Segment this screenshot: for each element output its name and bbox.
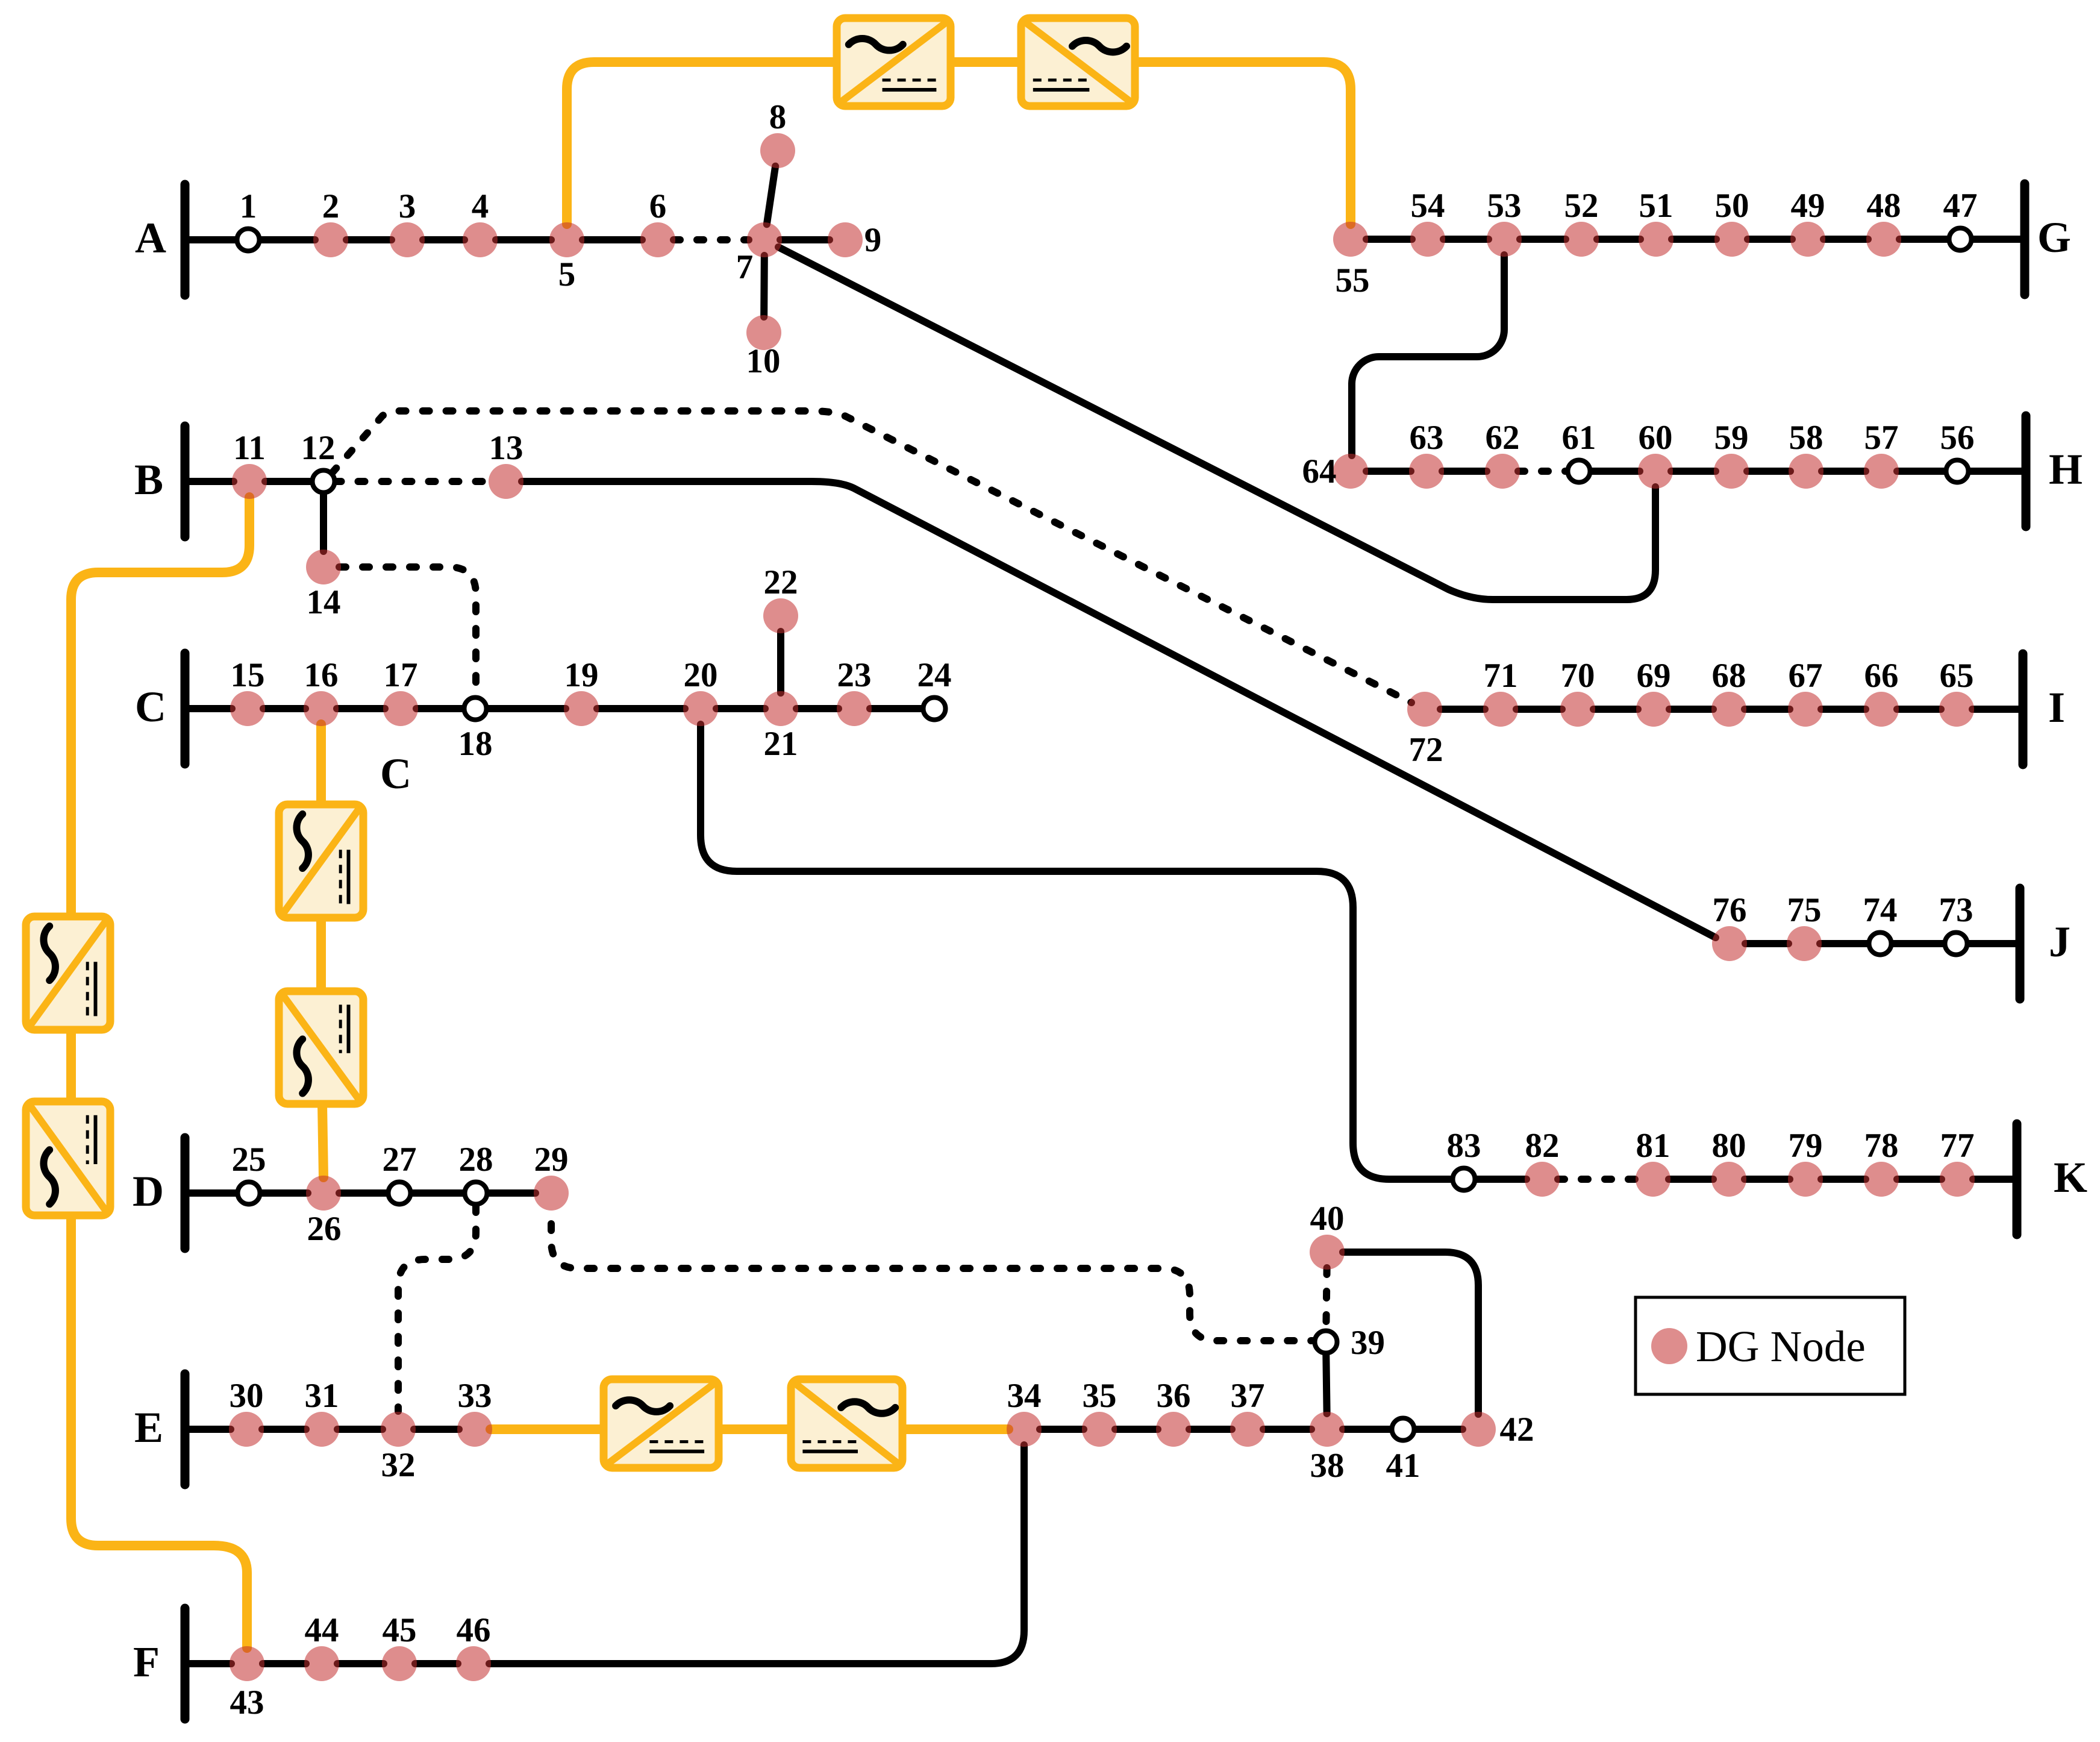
bus bar B: [181, 426, 190, 537]
node 83 (open): [1453, 1168, 1475, 1191]
DG node 10: [746, 315, 781, 350]
DG node 79: [1788, 1162, 1823, 1197]
svg-text:47: 47: [1943, 187, 1978, 225]
tie switch 12-13 (dashed): [335, 478, 491, 485]
svg-text:49: 49: [1791, 187, 1825, 225]
svg-text:63: 63: [1410, 419, 1444, 457]
wire 74-73: [1892, 940, 1945, 947]
DC link converter E1-E2 wire: [719, 1424, 791, 1434]
svg-text:64: 64: [1302, 453, 1337, 490]
svg-text:23: 23: [837, 656, 872, 694]
wire 57-56: [1897, 468, 1946, 475]
svg-text:13: 13: [489, 429, 523, 467]
node 73 (open): [1945, 933, 1967, 955]
converter E2 (DC/AC): [791, 1379, 902, 1468]
wire 83-82: [1475, 1176, 1527, 1183]
wire 41-42: [1414, 1426, 1463, 1433]
DG node 59: [1714, 454, 1749, 489]
wire 20-21: [716, 705, 765, 712]
svg-text:27: 27: [383, 1141, 417, 1179]
link node 13 to node 76 (diagonal): [522, 481, 1716, 938]
wire 68-67: [1745, 706, 1790, 713]
svg-text:21: 21: [764, 725, 798, 763]
svg-text:J: J: [2049, 918, 2070, 966]
svg-text:62: 62: [1486, 419, 1520, 457]
wire 61-60: [1590, 468, 1640, 475]
tie switch 82-81 (dashed): [1558, 1176, 1637, 1183]
wire 7-10: [760, 255, 768, 317]
wire 49-48: [1823, 236, 1868, 243]
wire 65 to bus I: [1972, 706, 2023, 713]
DG node 8: [760, 133, 795, 168]
node 12 (open): [313, 471, 335, 493]
wire 72-71: [1440, 706, 1485, 713]
DG node 11: [232, 464, 267, 499]
wire 7-9: [780, 236, 830, 243]
svg-text:41: 41: [1386, 1447, 1420, 1485]
DG node 37: [1230, 1412, 1265, 1447]
wire 53-52: [1520, 236, 1566, 243]
bus bar H: [2022, 416, 2031, 527]
wire bus F to node 43: [185, 1660, 231, 1667]
wire 54-53: [1443, 236, 1489, 243]
converter T2 (DC/AC): [1021, 18, 1135, 106]
tie switch 14 to 18 (dashed): [339, 567, 476, 695]
DG node 46: [456, 1646, 491, 1681]
DG node 68: [1711, 692, 1746, 727]
converter L1 (AC/DC): [26, 916, 110, 1030]
wire bus D to node 25: [185, 1189, 238, 1197]
link node 40 to node 42: [1343, 1252, 1478, 1414]
svg-text:20: 20: [684, 656, 718, 694]
DG node 77: [1940, 1162, 1975, 1197]
wire 25-26: [260, 1189, 308, 1197]
svg-text:A: A: [135, 214, 166, 262]
DG node 75: [1787, 926, 1822, 961]
svg-text:58: 58: [1789, 419, 1823, 457]
converter L2 (DC/AC): [26, 1101, 110, 1215]
DG node 36: [1156, 1412, 1191, 1447]
wire 18-19: [487, 705, 566, 712]
wire 55-54: [1366, 236, 1412, 243]
DG node 64: [1333, 454, 1368, 489]
wire 11-12: [265, 478, 313, 485]
DG node 72: [1407, 692, 1442, 727]
svg-text:52: 52: [1564, 187, 1599, 225]
DG node 6: [640, 222, 675, 257]
DG node 81: [1636, 1162, 1670, 1197]
wire 66-65: [1897, 706, 1941, 713]
wire bus B to node 11: [185, 478, 234, 485]
svg-text:F: F: [133, 1638, 160, 1686]
svg-text:DG Node: DG Node: [1696, 1322, 1866, 1371]
svg-text:K: K: [2054, 1153, 2087, 1202]
DG node 15: [230, 691, 265, 726]
DG node 65: [1939, 692, 1974, 727]
converter M2 (DC/AC): [279, 991, 363, 1104]
svg-text:28: 28: [459, 1141, 493, 1179]
wire 79-78: [1821, 1176, 1866, 1183]
DG node 20: [683, 691, 718, 726]
wire 73 to bus J: [1967, 940, 2020, 947]
wire 43-44: [263, 1660, 306, 1667]
svg-text:79: 79: [1789, 1127, 1823, 1165]
DG node 45: [382, 1646, 417, 1681]
wire 75-74: [1820, 940, 1869, 947]
svg-text:44: 44: [305, 1611, 339, 1649]
DG node 13: [489, 464, 523, 499]
DG node 5: [549, 222, 584, 257]
svg-text:76: 76: [1713, 891, 1747, 929]
wire bus E to node 30: [185, 1426, 231, 1433]
bus bar J: [2016, 888, 2025, 999]
wire 5-6: [583, 236, 642, 243]
wire 1-2: [260, 236, 316, 243]
svg-text:26: 26: [307, 1210, 342, 1248]
wire 16-17: [337, 705, 385, 712]
svg-text:43: 43: [230, 1684, 264, 1722]
svg-text:71: 71: [1484, 657, 1518, 695]
DC link converter E2 to node 34: [902, 1424, 1008, 1434]
wire 76-75: [1745, 940, 1789, 947]
link node 7 to node 60 (diagonal): [778, 247, 1655, 600]
DG node 26: [306, 1176, 341, 1211]
legend box: [1636, 1297, 1905, 1394]
DG node 23: [837, 691, 872, 726]
DC link node 33 to converter E1: [490, 1424, 607, 1434]
DG node 60: [1638, 454, 1673, 489]
wire 80-79: [1745, 1176, 1790, 1183]
svg-text:40: 40: [1310, 1200, 1345, 1238]
DC link node 16 riser: [316, 724, 326, 804]
DC link converter M2 to node 26: [322, 1104, 323, 1177]
svg-text:12: 12: [301, 429, 336, 467]
node 25 (open): [238, 1182, 260, 1205]
wire 50-49: [1748, 236, 1792, 243]
svg-text:1: 1: [240, 187, 257, 225]
svg-text:39: 39: [1351, 1324, 1385, 1362]
DG node 40: [1310, 1235, 1345, 1270]
DG node 80: [1711, 1162, 1746, 1197]
svg-text:36: 36: [1157, 1377, 1191, 1415]
wire 56 to bus H: [1969, 468, 2027, 475]
tie switch 29 to 39 (dashed): [551, 1224, 1313, 1341]
bus bar G: [2020, 184, 2030, 295]
wire 23-24: [870, 705, 923, 712]
converter T1 (AC/DC): [837, 18, 951, 106]
svg-text:14: 14: [307, 583, 341, 621]
link node 53 to node 64: [1352, 255, 1504, 456]
svg-text:53: 53: [1487, 187, 1522, 225]
DG node 52: [1564, 222, 1599, 257]
svg-text:54: 54: [1411, 187, 1445, 225]
DG node 42: [1461, 1412, 1496, 1447]
DG node 69: [1636, 692, 1671, 727]
svg-text:2: 2: [322, 187, 340, 225]
svg-text:7: 7: [736, 248, 754, 286]
svg-text:29: 29: [534, 1141, 569, 1179]
DG node 66: [1864, 692, 1899, 727]
wire 21-23: [796, 705, 839, 712]
legend DG node symbol: [1651, 1328, 1687, 1364]
DG node 30: [229, 1412, 264, 1447]
converter M1 (AC/DC): [279, 804, 363, 918]
svg-text:34: 34: [1007, 1377, 1042, 1415]
DG node 32: [381, 1412, 416, 1447]
svg-text:33: 33: [458, 1377, 492, 1415]
wire 35-36: [1115, 1426, 1158, 1433]
bus bar E: [181, 1374, 190, 1485]
DG node 55: [1333, 222, 1368, 257]
tie switch 62-61 (dashed): [1518, 468, 1568, 475]
DG node 53: [1487, 222, 1522, 257]
svg-text:57: 57: [1864, 419, 1899, 457]
svg-text:C: C: [135, 683, 166, 731]
wire 7-8: [767, 166, 775, 225]
svg-text:42: 42: [1500, 1411, 1534, 1449]
wire 44-45: [337, 1660, 384, 1667]
svg-text:5: 5: [558, 255, 576, 293]
svg-text:17: 17: [384, 656, 418, 694]
DG node 17: [383, 691, 418, 726]
wire 77 to bus K: [1973, 1176, 2017, 1183]
svg-text:24: 24: [917, 656, 952, 694]
DC link converter M1-M2 wire: [316, 918, 326, 991]
DG node 21: [763, 691, 798, 726]
DG node 9: [828, 222, 863, 257]
wire 48-47: [1899, 236, 1949, 243]
wire 58-57: [1822, 468, 1866, 475]
DC link node 5 riser: [567, 62, 837, 224]
svg-text:60: 60: [1639, 419, 1673, 457]
DC link left converter L1-L2 wire: [66, 1030, 76, 1101]
svg-text:45: 45: [383, 1611, 417, 1649]
wire 34-35: [1040, 1426, 1084, 1433]
svg-text:9: 9: [864, 221, 882, 259]
svg-text:82: 82: [1525, 1127, 1560, 1165]
svg-text:37: 37: [1231, 1377, 1265, 1415]
wire 4-5: [496, 236, 551, 243]
svg-text:D: D: [133, 1167, 164, 1215]
svg-text:69: 69: [1637, 657, 1671, 695]
svg-text:59: 59: [1714, 419, 1749, 457]
DG node 44: [304, 1646, 339, 1681]
svg-text:51: 51: [1639, 187, 1673, 225]
DG node 48: [1866, 222, 1901, 257]
node 74 (open): [1869, 933, 1892, 955]
wire 78-77: [1897, 1176, 1942, 1183]
wire 39-38: [1326, 1353, 1327, 1414]
tie switch 12 to 72 (dashed): [332, 411, 1411, 703]
svg-text:74: 74: [1863, 891, 1898, 929]
wire 71-70: [1516, 706, 1562, 713]
DG node 76: [1712, 926, 1747, 961]
DG node 57: [1864, 454, 1899, 489]
DG node 31: [304, 1412, 339, 1447]
wire 36-37: [1189, 1426, 1232, 1433]
svg-text:72: 72: [1409, 731, 1443, 769]
svg-text:H: H: [2049, 445, 2083, 493]
wire 27-28: [411, 1189, 465, 1197]
converter E1 (AC/DC): [604, 1379, 719, 1468]
wire 37-38: [1263, 1426, 1311, 1433]
DC link converter T2 to node 55: [1135, 62, 1351, 224]
svg-text:61: 61: [1562, 419, 1596, 457]
wire 67-66: [1821, 706, 1866, 713]
node 27 (open): [389, 1182, 411, 1205]
DG node 63: [1409, 454, 1444, 489]
svg-text:10: 10: [746, 342, 781, 380]
wire 31-32: [337, 1426, 383, 1433]
node 56 (open): [1946, 460, 1969, 483]
wire 19-20: [597, 705, 685, 712]
DG node 49: [1790, 222, 1825, 257]
svg-text:19: 19: [564, 656, 599, 694]
DG node 29: [534, 1176, 569, 1211]
node 18 (open): [464, 698, 487, 720]
wire 32-33: [414, 1426, 459, 1433]
svg-text:32: 32: [381, 1446, 416, 1484]
DC link converter T1-T2 wire: [951, 57, 1021, 67]
node 1 (open): [237, 229, 260, 251]
DG node 16: [304, 691, 339, 726]
link node 20 to node 83: [701, 724, 1455, 1179]
svg-text:46: 46: [457, 1611, 491, 1649]
svg-text:78: 78: [1864, 1127, 1899, 1165]
DC link left converter L2 to node 43: [71, 1215, 247, 1648]
bus bar A: [181, 184, 190, 295]
DG node 19: [564, 691, 599, 726]
wire 81-80: [1669, 1176, 1713, 1183]
DG node 51: [1639, 222, 1673, 257]
svg-text:15: 15: [231, 656, 265, 694]
wire 26-27: [339, 1189, 389, 1197]
DG node 2: [313, 222, 348, 257]
svg-text:35: 35: [1083, 1377, 1117, 1415]
svg-text:B: B: [134, 456, 163, 504]
DG node 14: [306, 550, 341, 584]
node 41 (open): [1392, 1418, 1414, 1441]
wire 63-62: [1442, 468, 1487, 475]
DG node 62: [1485, 454, 1520, 489]
wire 28-29: [487, 1189, 536, 1197]
wire 3-4: [423, 236, 464, 243]
bus bar I: [2019, 654, 2028, 765]
bus bar K: [2013, 1124, 2022, 1235]
svg-text:31: 31: [305, 1377, 339, 1415]
svg-text:81: 81: [1636, 1127, 1670, 1165]
DC link node 11 to left converters: [71, 497, 249, 916]
svg-text:3: 3: [399, 187, 416, 225]
DG node 67: [1788, 692, 1823, 727]
tie switch 40-39 (dashed): [1326, 1268, 1327, 1331]
DG node 71: [1483, 692, 1518, 727]
svg-text:G: G: [2037, 213, 2071, 262]
svg-text:4: 4: [472, 187, 489, 225]
wire 30-31: [262, 1426, 306, 1433]
svg-text:75: 75: [1787, 891, 1822, 929]
DG node 50: [1714, 222, 1749, 257]
svg-text:56: 56: [1940, 419, 1975, 457]
node 24 (open): [923, 698, 946, 720]
DG node 33: [457, 1412, 492, 1447]
wire 51-50: [1672, 236, 1716, 243]
svg-text:11: 11: [233, 429, 266, 467]
DG node 35: [1082, 1412, 1117, 1447]
DG node 82: [1525, 1162, 1560, 1197]
svg-text:55: 55: [1336, 262, 1370, 299]
tie switch 28 to 32 (dashed): [398, 1206, 476, 1411]
DG node 54: [1410, 222, 1445, 257]
svg-text:73: 73: [1939, 891, 1973, 929]
bus bar F: [181, 1608, 190, 1719]
wire 64-63: [1366, 468, 1411, 475]
bus bar C: [181, 653, 190, 764]
svg-text:25: 25: [232, 1141, 266, 1179]
node 47 (open): [1949, 228, 1972, 251]
DG node 43: [230, 1646, 264, 1681]
svg-text:48: 48: [1867, 187, 1901, 225]
DG node 4: [463, 222, 498, 257]
svg-text:70: 70: [1561, 657, 1595, 695]
svg-text:I: I: [2048, 683, 2065, 732]
DG node 38: [1310, 1412, 1345, 1447]
DG node 78: [1864, 1162, 1899, 1197]
svg-text:80: 80: [1712, 1127, 1746, 1165]
node 61 (open): [1568, 460, 1590, 483]
wire bus A to node 1: [185, 236, 237, 243]
DG node 58: [1789, 454, 1823, 489]
svg-text:67: 67: [1789, 657, 1823, 695]
svg-text:50: 50: [1715, 187, 1749, 225]
svg-text:66: 66: [1864, 657, 1899, 695]
svg-text:18: 18: [458, 725, 493, 763]
svg-text:38: 38: [1310, 1447, 1345, 1485]
DG node 34: [1007, 1412, 1042, 1447]
svg-text:16: 16: [304, 656, 339, 694]
svg-text:65: 65: [1940, 657, 1974, 695]
bus bar D: [181, 1138, 190, 1249]
wire 12-14: [320, 493, 327, 552]
wire 15-16: [263, 705, 305, 712]
node 39 (open): [1315, 1331, 1337, 1353]
wire 2-3: [346, 236, 392, 243]
wire 60-59: [1671, 468, 1716, 475]
wire 45-46: [415, 1660, 458, 1667]
node 28 (open): [465, 1182, 487, 1205]
DG node 3: [390, 222, 425, 257]
wire 46 to node 34 (corner link): [489, 1445, 1024, 1664]
wire 17-18: [416, 705, 464, 712]
wire 70-69: [1593, 706, 1638, 713]
svg-text:8: 8: [769, 98, 787, 136]
DG node 70: [1560, 692, 1595, 727]
wire 47 to bus G: [1972, 236, 2025, 243]
wire 21-22: [777, 631, 784, 693]
DG node 22: [763, 598, 798, 633]
svg-text:30: 30: [230, 1377, 264, 1415]
wire 52-51: [1597, 236, 1640, 243]
svg-text:77: 77: [1940, 1127, 1975, 1165]
svg-text:83: 83: [1447, 1127, 1481, 1165]
wire 69-68: [1669, 706, 1713, 713]
tie switch 6-7 (dashed): [673, 236, 749, 243]
svg-text:68: 68: [1712, 657, 1746, 695]
svg-text:22: 22: [764, 563, 798, 601]
svg-text:E: E: [134, 1403, 163, 1452]
wire 38-41: [1343, 1426, 1392, 1433]
svg-text:6: 6: [649, 187, 667, 225]
